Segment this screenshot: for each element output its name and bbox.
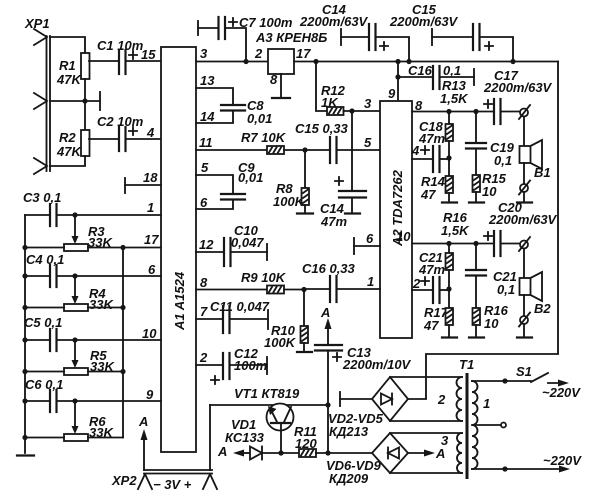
capacitor C8 0,01 bbox=[196, 88, 272, 126]
node C16 tap bbox=[395, 74, 400, 79]
node bus row17 bbox=[120, 245, 125, 250]
svg-text:R7 10K: R7 10K bbox=[241, 130, 287, 145]
svg-text:T1: T1 bbox=[459, 357, 474, 372]
svg-text:КД213: КД213 bbox=[329, 424, 369, 439]
wire pin 1 row bbox=[57, 214, 161, 216]
svg-text:18: 18 bbox=[143, 170, 158, 185]
wire bridge1 AC bottom to winding 2 bbox=[390, 420, 462, 422]
svg-text:− 3V +: − 3V + bbox=[153, 477, 192, 492]
svg-text:3: 3 bbox=[364, 96, 372, 111]
resistor R11 120 bbox=[294, 424, 371, 457]
resistor R17 47 bbox=[423, 289, 457, 338]
svg-text:КД209: КД209 bbox=[329, 471, 369, 486]
svg-text:~220V: ~220V bbox=[543, 453, 582, 468]
svg-text:R2: R2 bbox=[59, 130, 76, 145]
svg-text:1: 1 bbox=[147, 200, 154, 215]
node C7 tap bbox=[243, 59, 248, 64]
IC A1 A1524 bbox=[161, 47, 196, 452]
winding 1 center tap bbox=[472, 423, 506, 428]
IC A2 TDA7262 bbox=[380, 101, 412, 338]
svg-text:B1: B1 bbox=[534, 165, 551, 180]
resistor R16 10 bbox=[469, 303, 509, 338]
svg-text:8: 8 bbox=[270, 72, 278, 87]
wire R6 row to bus bbox=[25, 437, 123, 439]
pin 18 stub with end bar bbox=[125, 170, 161, 193]
node R12 tap bbox=[313, 59, 318, 64]
arrow ~220V top bbox=[542, 380, 581, 401]
wire bridge2 AC bottom to winding 3 bbox=[390, 472, 462, 474]
svg-text:3: 3 bbox=[200, 46, 208, 61]
svg-text:10: 10 bbox=[484, 316, 499, 331]
winding 3 bbox=[457, 433, 462, 473]
svg-text:13: 13 bbox=[200, 73, 215, 88]
svg-text:0,1: 0,1 bbox=[494, 153, 512, 168]
svg-text:47m: 47m bbox=[320, 214, 347, 229]
svg-text:11: 11 bbox=[199, 135, 213, 150]
potentiometer R4 33K bbox=[64, 276, 114, 312]
svg-text:47K: 47K bbox=[56, 72, 82, 87]
wire R4 row to bus bbox=[25, 307, 123, 309]
svg-text:3: 3 bbox=[441, 433, 449, 448]
wire R1 bottom bbox=[84, 79, 86, 101]
svg-text:C2 10m: C2 10m bbox=[97, 114, 144, 129]
net label A at VD1 bbox=[217, 444, 250, 459]
svg-text:2: 2 bbox=[199, 350, 208, 365]
svg-text:КС133: КС133 bbox=[225, 430, 265, 445]
node R12 C14b junction bbox=[349, 108, 354, 113]
speaker B2 bbox=[520, 272, 552, 316]
switch S1 bbox=[516, 364, 548, 382]
winding 1 bbox=[472, 381, 478, 469]
node column row17 bbox=[22, 245, 27, 250]
wire bridge1 AC top to winding 2 bbox=[390, 376, 462, 378]
node C3 wiper tap bbox=[72, 212, 77, 217]
capacitor C13 2200m/10V bbox=[315, 345, 412, 453]
node C19 top bbox=[473, 109, 478, 114]
node column row10 bbox=[22, 337, 27, 342]
potentiometer R3 33K bbox=[64, 215, 113, 251]
wire pin 6 row bbox=[57, 275, 161, 277]
wire A1 pin3 to A3 input bbox=[196, 61, 268, 63]
node S1 bbox=[502, 378, 507, 383]
svg-text:R1: R1 bbox=[59, 58, 76, 73]
wire pin 10 row bbox=[57, 339, 161, 341]
capacitor C4 0,1 bbox=[25, 252, 64, 287]
svg-text:2: 2 bbox=[254, 46, 263, 61]
node column rowR5 bbox=[22, 369, 27, 374]
svg-text:10: 10 bbox=[482, 184, 497, 199]
jack B2 top bbox=[519, 237, 530, 251]
capacitor C5 0,1 bbox=[24, 315, 62, 351]
svg-text:C16 0,33: C16 0,33 bbox=[302, 261, 356, 276]
wire +V right rail bbox=[426, 62, 558, 399]
capacitor C1 10m bbox=[89, 38, 161, 74]
potentiometer R6 33K bbox=[64, 401, 114, 441]
node C13 minus rail bbox=[325, 450, 330, 455]
svg-text:1,5K: 1,5K bbox=[440, 91, 469, 106]
capacitor C10 0,047 bbox=[196, 223, 267, 266]
resistor R1 bbox=[56, 53, 90, 87]
svg-text:2200m/10V: 2200m/10V bbox=[342, 357, 412, 372]
svg-text:6: 6 bbox=[366, 231, 374, 246]
ground B1 bbox=[517, 192, 532, 203]
node R7 R8 junction bbox=[302, 147, 307, 152]
svg-text:2200m/63V: 2200m/63V bbox=[299, 14, 369, 29]
svg-text:1,5K: 1,5K bbox=[441, 223, 470, 238]
svg-text:C4 0,1: C4 0,1 bbox=[26, 252, 64, 267]
svg-text:S1: S1 bbox=[516, 364, 532, 379]
svg-text:12: 12 bbox=[199, 237, 214, 252]
svg-text:C5 0,1: C5 0,1 bbox=[24, 315, 62, 330]
wire jack to speaker B2 bbox=[523, 249, 525, 279]
capacitor C20 2200m/63V bbox=[484, 200, 558, 256]
capacitor C21 0,1 bbox=[466, 244, 517, 309]
svg-text:17: 17 bbox=[296, 46, 311, 61]
svg-text:14: 14 bbox=[200, 109, 215, 124]
capacitor C2 10m bbox=[89, 114, 161, 151]
capacitor C6 0,1 bbox=[25, 377, 63, 412]
wire winding1 bottom bbox=[472, 468, 564, 470]
svg-text:C11 0,047: C11 0,047 bbox=[210, 299, 270, 314]
node R9 R10 junction bbox=[301, 287, 306, 292]
net label A at XP2 bbox=[138, 414, 148, 470]
arrow ~220V bottom bbox=[543, 453, 582, 473]
svg-text:A: A bbox=[138, 414, 148, 429]
capacitor C18 47m bbox=[411, 119, 449, 172]
svg-text:47m: 47m bbox=[418, 131, 445, 146]
capacitor C19 0,1 bbox=[466, 112, 515, 176]
svg-text:C3 0,1: C3 0,1 bbox=[23, 190, 61, 205]
svg-text:10: 10 bbox=[396, 229, 411, 244]
svg-text:А3 КРЕН8Б: А3 КРЕН8Б bbox=[255, 30, 327, 45]
bridge rectifier VD2-VD5 KD213 bbox=[328, 377, 426, 439]
capacitor C9 0,01 bbox=[196, 160, 263, 209]
node C6 wiper tap bbox=[72, 398, 77, 403]
svg-text:2: 2 bbox=[412, 276, 421, 291]
svg-text:C16: C16 bbox=[408, 63, 433, 78]
svg-text:A: A bbox=[217, 444, 227, 459]
speaker B1 bbox=[520, 140, 551, 180]
svg-text:1: 1 bbox=[483, 396, 490, 411]
svg-text:B2: B2 bbox=[534, 301, 551, 316]
resistor R16 1,5K bbox=[441, 210, 470, 288]
svg-text:R9 10K: R9 10K bbox=[241, 270, 287, 285]
svg-text:1: 1 bbox=[367, 274, 374, 289]
node column row9 bbox=[22, 398, 27, 403]
pin 10 wire A2 bbox=[412, 243, 493, 245]
resistor R14 47 bbox=[420, 158, 457, 203]
transistor VT1 KT819 bbox=[210, 386, 328, 453]
resistor R7 10K bbox=[196, 130, 305, 154]
potentiometer R5 33K bbox=[64, 340, 115, 375]
node C21 R17 junction bbox=[446, 286, 451, 291]
svg-text:2: 2 bbox=[437, 392, 446, 407]
svg-text:0,1: 0,1 bbox=[443, 63, 461, 78]
wire XP2 plus riser to VT1 emitter bbox=[209, 405, 211, 470]
capacitor C17 2200m/63V bbox=[483, 68, 553, 124]
wire XP1 middle with end bar bbox=[50, 92, 100, 110]
node C4 wiper tap bbox=[72, 273, 77, 278]
capacitor C21 47m bbox=[412, 250, 449, 303]
svg-text:7: 7 bbox=[200, 304, 208, 319]
jack B2 bottom bbox=[519, 313, 530, 327]
voltage regulator A3 KREN8B bbox=[254, 30, 327, 74]
resistor R9 10K bbox=[196, 270, 304, 294]
wire left common column bbox=[24, 215, 26, 453]
svg-text:8: 8 bbox=[200, 275, 208, 290]
svg-text:XP1: XP1 bbox=[24, 16, 50, 31]
diode VD1 KC133 bbox=[225, 417, 299, 460]
capacitor C11 0,047 bbox=[196, 299, 270, 333]
resistor R8 100K bbox=[273, 150, 313, 214]
node C5 wiper tap bbox=[72, 337, 77, 342]
node C18 R14 junction bbox=[446, 155, 451, 160]
wire feedback bus vertical bbox=[122, 248, 124, 438]
wire jack to speaker B1 bbox=[523, 117, 525, 147]
capacitor C14 47m bbox=[320, 111, 366, 229]
svg-text:5: 5 bbox=[364, 135, 372, 150]
svg-text:15: 15 bbox=[141, 47, 156, 62]
wire R2 bottom to XP1 bbox=[50, 156, 85, 166]
svg-text:0,01: 0,01 bbox=[238, 170, 263, 185]
node R13 top bbox=[446, 109, 451, 114]
capacitor C15 2200m/63V bbox=[389, 2, 513, 62]
svg-text:A: A bbox=[320, 305, 330, 320]
svg-text:A1 A1524: A1 A1524 bbox=[172, 271, 187, 331]
winding 2 bbox=[457, 377, 463, 421]
wire XP1 top to R1 bbox=[50, 37, 85, 53]
svg-text:33K: 33K bbox=[89, 297, 114, 312]
capacitor C16 0,33 bbox=[302, 261, 380, 302]
capacitor C14 2200m/63V bbox=[299, 2, 409, 62]
svg-text:2200m/63V: 2200m/63V bbox=[483, 80, 553, 95]
svg-text:0,1: 0,1 bbox=[497, 282, 515, 297]
svg-text:4: 4 bbox=[411, 143, 420, 158]
svg-text:4: 4 bbox=[146, 125, 155, 140]
jack B1 bottom bbox=[519, 181, 530, 195]
node bus rowR4 bbox=[120, 305, 125, 310]
svg-text:5: 5 bbox=[201, 160, 209, 175]
svg-text:C7 100m: C7 100m bbox=[239, 15, 293, 30]
resistor R15 10 bbox=[469, 171, 507, 203]
svg-text:0,047: 0,047 bbox=[231, 235, 264, 250]
node R1/R2 junction bbox=[82, 98, 87, 103]
wire R5 row to bus bbox=[25, 371, 123, 373]
connector XP2 bbox=[111, 470, 217, 492]
node winding1 bottom bbox=[502, 466, 507, 471]
ground A3 bbox=[272, 74, 290, 98]
node column rowR6 bbox=[22, 435, 27, 440]
pin 6 stub A2 bbox=[354, 231, 380, 254]
svg-text:0,01: 0,01 bbox=[247, 111, 272, 126]
node VT1 collector bbox=[325, 402, 330, 407]
svg-text:8: 8 bbox=[415, 98, 423, 113]
svg-text:C15 0,33: C15 0,33 bbox=[295, 121, 349, 136]
net label A at bridge2 bbox=[408, 446, 445, 461]
node C21b top bbox=[473, 241, 478, 246]
wire winding1 top to S1 bbox=[472, 380, 531, 382]
svg-text:C1 10m: C1 10m bbox=[97, 38, 144, 53]
net label A above C13 bbox=[320, 305, 332, 344]
resistor R2 bbox=[56, 130, 90, 159]
svg-text:47: 47 bbox=[423, 318, 439, 333]
wire R2 top bbox=[84, 101, 86, 130]
wire speaker B2 bottom bbox=[523, 295, 525, 316]
wire pin 17 row bbox=[25, 247, 161, 249]
svg-text:47m: 47m bbox=[418, 262, 445, 277]
svg-text:6: 6 bbox=[200, 195, 208, 210]
capacitor C7 100m bbox=[198, 15, 293, 62]
ground B2 bbox=[517, 324, 532, 338]
transformer T1 bbox=[459, 357, 474, 479]
svg-text:XP2: XP2 bbox=[111, 473, 137, 488]
svg-text:10: 10 bbox=[142, 326, 157, 341]
svg-text:2200m/63V: 2200m/63V bbox=[488, 212, 558, 227]
node VT1 base bbox=[278, 450, 283, 455]
svg-text:VT1 КТ819: VT1 КТ819 bbox=[234, 386, 300, 401]
node column row6 bbox=[22, 273, 27, 278]
node C15 tap bbox=[510, 59, 515, 64]
svg-text:9: 9 bbox=[388, 86, 396, 101]
capacitor C15 0,33 bbox=[295, 121, 381, 163]
svg-text:47: 47 bbox=[420, 187, 436, 202]
wire +V top rail bbox=[294, 61, 558, 63]
capacitor C3 0,1 bbox=[23, 190, 61, 226]
svg-text:100K: 100K bbox=[264, 335, 297, 350]
node R16 top bbox=[446, 241, 451, 246]
resistor R13 1,5K bbox=[440, 78, 469, 157]
connector XP1 bbox=[24, 16, 50, 174]
svg-text:17: 17 bbox=[144, 232, 159, 247]
svg-text:47K: 47K bbox=[56, 144, 82, 159]
node bus rowR5 bbox=[120, 369, 125, 374]
node column rowR4 bbox=[22, 305, 27, 310]
jack B1 top bbox=[519, 105, 530, 119]
svg-text:A: A bbox=[435, 446, 445, 461]
wire speaker B1 bottom bbox=[523, 163, 525, 184]
wire pin 9 drop bbox=[397, 62, 399, 102]
resistor R12 1K bbox=[316, 62, 381, 116]
svg-text:2200m/63V: 2200m/63V bbox=[389, 14, 459, 29]
bridge rectifier VD6-VD9 KD209 bbox=[326, 433, 408, 486]
wire bridge2 AC top to winding 3 bbox=[390, 432, 462, 434]
pin 8 wire A2 bbox=[412, 111, 493, 113]
svg-text:6: 6 bbox=[148, 262, 156, 277]
capacitor C12 100m bbox=[196, 346, 268, 384]
wire pin 9 row bbox=[57, 400, 161, 402]
svg-text:~220V: ~220V bbox=[542, 385, 581, 400]
capacitor C16 0,1 bbox=[398, 63, 474, 89]
resistor R10 100K bbox=[264, 290, 312, 353]
ground left column bbox=[17, 454, 34, 456]
svg-text:9: 9 bbox=[146, 387, 154, 402]
node C14 tap bbox=[406, 59, 411, 64]
node pin9 tap bbox=[395, 59, 400, 64]
